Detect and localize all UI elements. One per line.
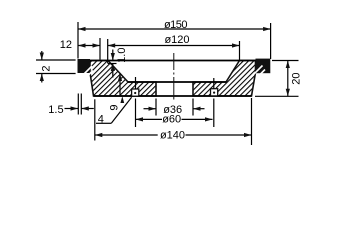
dim 20 [288, 61, 303, 97]
svg-text:ø120: ø120 [164, 34, 189, 46]
svg-text:2: 2 [40, 65, 52, 71]
wheel body right section (hatched) [193, 61, 256, 97]
insert square right [211, 89, 218, 96]
dim d140 [95, 130, 252, 142]
dim d60 [136, 114, 213, 126]
ext line 12 [99, 38, 101, 60]
ext line d60 right [213, 78, 215, 89]
ext line 1.5 b [80, 94, 82, 115]
abrasive segment right (black) [256, 59, 271, 74]
svg-text:ø140: ø140 [160, 130, 185, 142]
leader 4 [96, 96, 132, 125]
centerline [173, 53, 175, 100]
ext line d120 left [107, 39, 109, 64]
recess bottom edge line [128, 81, 226, 83]
svg-text:1.5: 1.5 [48, 104, 63, 116]
dim 1.5 [48, 104, 93, 116]
dim 1.0 [113, 48, 128, 78]
abrasive segment left (black) [78, 59, 91, 73]
svg-text:ø150: ø150 [164, 19, 187, 31]
insert square left [132, 89, 139, 96]
ext line d140 right [251, 98, 253, 145]
dim 2 [40, 51, 52, 83]
ext line 2 top [36, 59, 76, 61]
ext line d36 right [192, 99, 194, 116]
ext line d150 left lower [77, 94, 79, 115]
dim 9 [108, 74, 120, 111]
wheel body left section (hatched) [90, 61, 156, 97]
ext line 2 bottom [36, 73, 76, 75]
top face line [90, 60, 256, 62]
ext line 20 top [272, 60, 299, 62]
ext line d60 left [135, 77, 137, 89]
svg-text:ø60: ø60 [162, 114, 181, 126]
ext line d150 left [77, 22, 79, 59]
up arrowhead at bottom face (9 dim) [120, 96, 124, 103]
step line 1.0 left [108, 63, 117, 65]
svg-text:1.0: 1.0 [116, 48, 128, 63]
bottom face line [94, 95, 252, 97]
svg-text:20: 20 [290, 72, 302, 84]
svg-text:9: 9 [108, 104, 120, 110]
ext line d120 right [239, 41, 241, 61]
dim d150 [78, 19, 271, 31]
dim d120 [108, 34, 240, 46]
ext line d36 left [155, 99, 157, 116]
ext line d140 left [94, 99, 96, 140]
ext line d150 right [270, 23, 272, 59]
dim 12 [60, 39, 100, 51]
dim d36 [144, 104, 205, 116]
svg-text:12: 12 [60, 39, 72, 51]
hatch gap stripes over left segment corner [83, 66, 94, 77]
ext line 20 bottom [255, 95, 299, 97]
hatch gap stripes over right segment corner [253, 66, 265, 78]
